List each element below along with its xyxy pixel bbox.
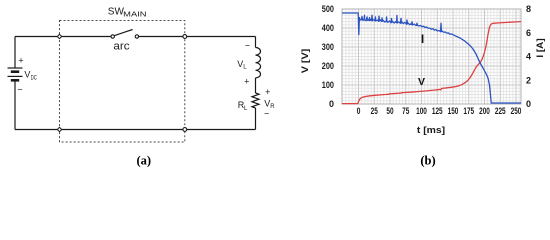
svg-text:SW: SW — [108, 7, 125, 18]
svg-text:I: I — [421, 32, 424, 46]
svg-text:200: 200 — [322, 61, 334, 71]
svg-text:150: 150 — [448, 106, 459, 116]
svg-text:R: R — [270, 104, 275, 110]
red voltage curve V — [342, 22, 521, 104]
svg-text:+: + — [18, 56, 23, 66]
wire: left branch upper (battery positive lead) — [14, 37, 16, 69]
svg-text:0: 0 — [526, 99, 531, 109]
svg-text:300: 300 — [322, 42, 334, 52]
svg-text:DC: DC — [31, 75, 38, 81]
inductor L coil — [256, 48, 261, 78]
chart major gridlines — [342, 9, 521, 104]
chart plot border frame — [342, 9, 521, 104]
svg-text:L: L — [244, 106, 248, 112]
svg-text:100: 100 — [322, 80, 334, 90]
wire: left branch lower (battery negative lead) — [14, 81, 16, 130]
svg-text:2: 2 — [526, 76, 531, 86]
svg-text:L: L — [243, 64, 247, 70]
svg-text:0: 0 — [329, 99, 334, 109]
resistor RL zigzag — [252, 93, 259, 108]
switch right contact — [135, 35, 138, 38]
svg-text:(b): (b) — [420, 154, 435, 168]
svg-text:8: 8 — [526, 4, 531, 14]
svg-text:225: 225 — [495, 106, 506, 116]
node: top-left crossing diamond — [57, 34, 61, 38]
svg-text:V: V — [24, 70, 30, 80]
chart minor gridlines — [342, 9, 521, 104]
svg-text:−: − — [17, 85, 22, 95]
svg-text:V: V — [418, 76, 425, 88]
svg-text:V [V]: V [V] — [300, 49, 310, 74]
node: bottom-left crossing diamond — [57, 127, 61, 131]
svg-text:+: + — [244, 77, 249, 87]
dashed measurement box around switch — [60, 21, 185, 143]
svg-text:250: 250 — [511, 106, 522, 116]
svg-text:+: + — [265, 87, 270, 97]
svg-text:0: 0 — [357, 106, 361, 116]
svg-text:125: 125 — [432, 106, 443, 116]
svg-text:MAIN: MAIN — [123, 11, 146, 18]
svg-text:175: 175 — [463, 106, 474, 116]
node: bottom-right crossing circle — [183, 128, 187, 132]
svg-text:−: − — [264, 109, 269, 119]
switch left contact — [111, 35, 114, 38]
svg-text:50: 50 — [386, 106, 393, 116]
right axis tick labels I — [526, 4, 531, 109]
chart plot area border — [342, 9, 521, 104]
svg-text:(a): (a) — [137, 154, 152, 168]
svg-text:500: 500 — [322, 4, 334, 14]
left axis tick labels V — [322, 4, 334, 109]
svg-text:I [A]: I [A] — [535, 38, 545, 57]
wire: bottom return wire — [15, 129, 256, 131]
svg-text:−: − — [245, 40, 250, 50]
svg-text:arc: arc — [113, 40, 130, 52]
svg-text:t [ms]: t [ms] — [417, 125, 445, 136]
wire: top wire left segment from battery to switch left contact — [15, 36, 111, 38]
svg-text:400: 400 — [322, 23, 334, 33]
switch SW_MAIN blade — [114, 30, 132, 36]
bottom axis tick labels t — [357, 106, 522, 116]
wire: right branch middle (inductor to resistor) — [255, 78, 257, 93]
svg-text:100: 100 — [416, 106, 427, 116]
svg-text:6: 6 — [526, 28, 531, 38]
wire: top wire right segment from switch right contact to inductor branch — [139, 36, 256, 38]
svg-text:200: 200 — [479, 106, 490, 116]
svg-text:25: 25 — [371, 106, 378, 116]
wire: right branch bottom (resistor to bottom wire) — [255, 108, 257, 130]
blue current curve I — [342, 13, 521, 103]
battery VDC — [8, 68, 23, 80]
node: top-right crossing circle — [183, 35, 187, 39]
svg-text:4: 4 — [526, 52, 531, 62]
wire: right branch top (to inductor) — [255, 37, 257, 48]
svg-text:75: 75 — [402, 106, 409, 116]
